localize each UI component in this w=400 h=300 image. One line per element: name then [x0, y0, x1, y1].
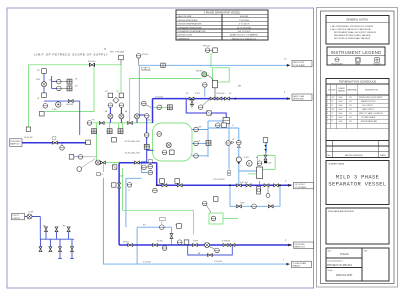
- svg-text:PIT: PIT: [37, 70, 40, 72]
- inlet line fittings: [24, 137, 90, 150]
- svg-text:3000mm ID x 9144mm L/T: 3000mm ID x 9144mm L/T: [232, 38, 257, 40]
- svg-text:ASME VIII DIV 1 U STAMPED: ASME VIII DIV 1 U STAMPED: [230, 34, 258, 37]
- svg-text:TO HP FLARE: TO HP FLARE: [293, 64, 306, 67]
- svg-text:8"-PG-102: 8"-PG-102: [217, 93, 225, 95]
- svg-text:24"-PL-100: 24"-PL-100: [24, 137, 33, 139]
- wire water vessel stub: [119, 162, 157, 164]
- manifold valves top: [45, 227, 71, 232]
- gas line labels: [186, 93, 232, 95]
- value labels gas line: [141, 67, 150, 72]
- wire lg loop: [142, 162, 148, 173]
- wire inlet feeders: [110, 107, 137, 123]
- wire drain branch: [137, 227, 171, 264]
- svg-text:Rev: Rev: [364, 251, 368, 253]
- valve on water bypass: [208, 254, 213, 257]
- node closed drain flag: [287, 261, 312, 268]
- svg-text:P-101: P-101: [244, 157, 249, 159]
- svg-text:OIL OUTLET: OIL OUTLET: [362, 105, 374, 107]
- revision strip: [326, 141, 389, 158]
- svg-text:4000 M3: 4000 M3: [240, 16, 249, 18]
- svg-text:MANIFOLD: MANIFOLD: [10, 143, 20, 146]
- svg-text:PIT: PIT: [143, 225, 146, 227]
- lg loop instruments: [142, 160, 153, 175]
- wire green right instrument box: [258, 156, 275, 170]
- svg-text:8"-PW-104: 8"-PW-104: [222, 241, 230, 243]
- silencer box: [223, 118, 229, 124]
- instrument circle under gas main: [198, 100, 209, 110]
- wire bridle to pump: [208, 128, 239, 185]
- svg-text:MATERIAL: MATERIAL: [348, 89, 357, 92]
- wire green inlet drops: [110, 123, 123, 129]
- svg-text:INSTRUMENT LEGEND: INSTRUMENT LEGEND: [331, 50, 382, 55]
- inlet header valves: [99, 121, 139, 164]
- wire instrument stubs: [52, 76, 57, 88]
- wire bridle standpipe: [208, 121, 229, 170]
- vessel V-100: [153, 123, 193, 161]
- svg-text:PROJECT-IN-PID-001: PROJECT-IN-PID-001: [327, 264, 352, 267]
- svg-text:10"-PG-101: 10"-PG-101: [142, 70, 151, 72]
- wire green LC box: [209, 213, 223, 224]
- svg-text:1. ALL PERSONNEL PROVIDED BY: 1. ALL PERSONNEL PROVIDED BY OTHERS: [330, 25, 374, 28]
- relief valve in green box: [264, 155, 267, 163]
- svg-text:VENT TO SAFE LOCATION: VENT TO SAFE LOCATION: [359, 112, 383, 115]
- svg-text:DESCRIPTION: DESCRIPTION: [365, 90, 379, 92]
- level gauge circle left of gas main: [142, 101, 152, 107]
- svg-text:2"-UW: 2"-UW: [28, 212, 33, 214]
- transmitter on pump line: [237, 140, 242, 148]
- svg-text:3: 3: [327, 105, 328, 107]
- wire green level signal: [123, 168, 194, 235]
- svg-text:PLC/DCS: PLC/DCS: [373, 64, 381, 66]
- svg-text:HEADER: HEADER: [293, 265, 301, 268]
- valves on gas main: [189, 97, 236, 100]
- drain loop instruments: [159, 218, 181, 239]
- svg-text:XV-103: XV-103: [123, 242, 129, 244]
- instrument vent circle on gas stub: [136, 54, 148, 66]
- node oil outlet flag: [288, 182, 313, 189]
- pump circle: [56, 102, 61, 107]
- svg-text:TIT: TIT: [116, 91, 119, 93]
- svg-text:WATER OUTLET: WATER OUTLET: [361, 100, 376, 103]
- vessel internals square: [166, 143, 171, 148]
- wire green vent stub: [102, 162, 104, 172]
- svg-text:24"-PL-1002-150#: 24"-PL-1002-150#: [125, 152, 141, 154]
- scattered instrument tag labels: [28, 49, 287, 264]
- node gas main flag: [287, 94, 312, 101]
- svg-text:GAS OUTLET: GAS OUTLET: [362, 108, 375, 111]
- svg-text:7*/24 PSIG: 7*/24 PSIG: [239, 20, 250, 22]
- motor circle: [247, 161, 253, 167]
- wire pcv gauge stub: [204, 89, 206, 97]
- wire green drop to inlet cluster: [120, 65, 122, 99]
- svg-text:COMPANY NAME: COMPANY NAME: [328, 163, 345, 166]
- left column instruments: [37, 69, 48, 116]
- termination schedule table: [326, 79, 389, 141]
- svg-text:8"-PG: 8"-PG: [195, 93, 200, 95]
- wire level bridle: [192, 121, 208, 157]
- svg-text:LIT: LIT: [37, 98, 39, 100]
- svg-text:SIZE: SIZE: [331, 90, 336, 92]
- wire instrument column: [43, 73, 45, 98]
- svg-text:INCLUDED IN WHICH BALL VALVE(S: INCLUDED IN WHICH BALL VALVE(S): [334, 37, 371, 40]
- svg-text:CLOSED DRAIN: CLOSED DRAIN: [361, 116, 376, 119]
- svg-text:DESIGN CODE: DESIGN CODE: [178, 35, 193, 37]
- vessel tap circles: [194, 127, 199, 158]
- xv valves on oil line left: [153, 179, 183, 193]
- node drain flag: [12, 213, 33, 220]
- svg-text:OPERATING PRESSURE: OPERATING PRESSURE: [178, 26, 203, 29]
- small header instruments: [87, 121, 96, 134]
- svg-text:101: 101: [49, 80, 52, 82]
- title panel inner frame: [321, 11, 395, 284]
- svg-text:INSTRUMENT SHALL BE SUPPLY VEN: INSTRUMENT SHALL BE SUPPLY VENDOR: [334, 31, 377, 34]
- svg-text:1: 1: [327, 97, 328, 99]
- title panel outer frame: [317, 8, 398, 288]
- wire manifold drops: [41, 239, 74, 258]
- LCV on oil line: [257, 187, 271, 198]
- svg-text:GAS VOLUME: GAS VOLUME: [178, 15, 192, 18]
- pump suction circle: [236, 157, 241, 164]
- valves on oil line: [229, 184, 281, 187]
- svg-text:LIT: LIT: [198, 141, 200, 143]
- svg-text:OPERATING TEMPERATURE: OPERATING TEMPERATURE: [178, 30, 207, 33]
- pcv body: [213, 80, 242, 98]
- water line instruments: [162, 240, 219, 253]
- wire psv drop right: [266, 143, 268, 154]
- wire pump recirc: [44, 101, 80, 135]
- general notes box: [326, 16, 389, 45]
- pipe labels: [125, 141, 141, 154]
- wire water outlet: [119, 163, 291, 245]
- top data table: [176, 10, 268, 40]
- svg-text:GAS TO GAS: GAS TO GAS: [293, 95, 305, 98]
- valve on recirc: [67, 100, 74, 107]
- svg-text:P-100: P-100: [52, 109, 57, 111]
- legend symbol plc: [375, 58, 380, 63]
- wire green main header: [28, 65, 121, 127]
- manifold valves bottom: [39, 247, 74, 252]
- svg-text:RATING: RATING: [338, 90, 346, 93]
- psv top circle: [203, 46, 217, 53]
- svg-text:SEPARATOR VESSEL: SEPARATOR VESSEL: [328, 182, 386, 188]
- svg-text:24"-PL-1001-150#: 24"-PL-1001-150#: [125, 141, 141, 143]
- inlet feeder meters: [108, 114, 149, 119]
- svg-text:PIT: PIT: [105, 91, 108, 93]
- pcv gauge circle: [203, 83, 208, 90]
- svg-text:2. ALL CONTROL VALVES FCV AND: 2. ALL CONTROL VALVES FCV AND BLIND: [330, 28, 372, 31]
- wire closed drain header: [103, 178, 289, 264]
- svg-text:2"-VG-105: 2"-VG-105: [155, 97, 163, 99]
- svg-text:METER SKID: METER SKID: [293, 99, 305, 101]
- svg-text:45 TO 90 PSIG: 45 TO 90 PSIG: [237, 27, 252, 29]
- svg-text:DATE: DATE: [380, 154, 386, 157]
- svg-text:PIT-101: PIT-101: [142, 54, 148, 56]
- svg-text:F-101: F-101: [267, 163, 271, 165]
- wire oil bypass loop: [230, 185, 280, 206]
- psv green circle: [202, 72, 213, 81]
- svg-text:6"-PL-103-150#: 6"-PL-103-150#: [213, 179, 225, 181]
- svg-text:CLOSED DRAIN: CLOSED DRAIN: [293, 262, 307, 265]
- svg-text:REVISION/ISSUE: REVISION/ISSUE: [345, 155, 363, 157]
- legend symbol field inst: [335, 58, 339, 62]
- instrument square right: [263, 138, 268, 155]
- instrument square PSV riser left: [116, 51, 125, 65]
- wire green vent riser: [210, 53, 212, 68]
- svg-text:V-100: V-100: [146, 120, 150, 122]
- wire green lower header: [97, 123, 120, 163]
- wire green PCV control box: [213, 68, 230, 82]
- bottom title block: [326, 248, 389, 281]
- svg-text:10": 10": [284, 59, 287, 61]
- svg-text:LIMIT OF PETRECO SCOPE OF SUPP: LIMIT OF PETRECO SCOPE OF SUPPLY: [34, 53, 108, 57]
- svg-text:MILD 3 PHASE: MILD 3 PHASE: [336, 175, 380, 181]
- wire pump suction: [239, 171, 260, 185]
- svg-text:UTILITY: UTILITY: [12, 215, 19, 217]
- instrument legend box: [327, 47, 385, 65]
- wire green branch down-left: [45, 65, 94, 112]
- valves on oil bypass: [237, 204, 274, 209]
- square above green box: [213, 197, 218, 202]
- wire water bypass: [188, 245, 233, 255]
- svg-text:XV-104: XV-104: [157, 241, 163, 243]
- filter column: [248, 161, 262, 179]
- svg-text:2"-CD-102: 2"-CD-102: [214, 261, 222, 263]
- wire manifold risers: [46, 232, 69, 240]
- svg-text:6: 6: [327, 117, 328, 119]
- vessel internals pair: [162, 150, 174, 155]
- left pair instruments: [57, 79, 73, 91]
- green box circle: [202, 201, 215, 221]
- drain valve under gas line: [191, 100, 194, 108]
- svg-text:2"-BD: 2"-BD: [240, 203, 245, 205]
- node gas outlet flag: [287, 60, 312, 67]
- svg-text:M: M: [248, 162, 250, 166]
- svg-text:6"-PL-103: 6"-PL-103: [240, 182, 248, 184]
- feeder instruments: [108, 93, 124, 107]
- firm name box: [326, 208, 389, 244]
- svg-text:OIL OUTLET: OIL OUTLET: [295, 184, 306, 186]
- node water outlet flag: [288, 242, 313, 249]
- wire green gauge stub: [152, 106, 169, 108]
- svg-text:DESIGN TEMPERATURE: DESIGN TEMPERATURE: [178, 23, 203, 26]
- wire gas main: [153, 98, 291, 100]
- svg-text:FIRM NAME AND ADDRESS: FIRM NAME AND ADDRESS: [328, 210, 355, 213]
- svg-text:TERMINATION SCHEDULE: TERMINATION SCHEDULE: [339, 80, 377, 84]
- svg-text:INSTRUMENT AIR: INSTRUMENT AIR: [361, 120, 378, 123]
- wire green inlet header: [93, 122, 153, 124]
- svg-text:GAS OUTLET: GAS OUTLET: [293, 61, 305, 64]
- valve square on pcv drain: [207, 111, 211, 115]
- svg-text:DESIGN PRESSURE: DESIGN PRESSURE: [178, 20, 199, 22]
- svg-text:Scale: Scale: [328, 270, 334, 272]
- wire oil outlet: [157, 184, 292, 186]
- wire gas stub down: [138, 65, 140, 115]
- wire vessel feed: [139, 115, 153, 163]
- svg-text:GENERAL NOTES: GENERAL NOTES: [346, 18, 368, 22]
- svg-text:LIT: LIT: [232, 139, 234, 141]
- svg-text:PSV-102: PSV-102: [196, 71, 203, 73]
- water line labels: [193, 241, 230, 243]
- svg-text:PSV-100A: PSV-100A: [116, 51, 125, 54]
- inlet left cluster: [69, 155, 96, 172]
- wire green lc link: [223, 218, 238, 220]
- svg-text:3 PHASE SEPARATOR VESSEL: 3 PHASE SEPARATOR VESSEL: [204, 11, 241, 14]
- wire green to PSV circle: [129, 79, 201, 122]
- svg-text:7: 7: [327, 121, 328, 123]
- svg-text:2: 2: [327, 101, 328, 103]
- svg-text:No.: No.: [328, 155, 332, 157]
- LCV vertical on water drop: [112, 183, 132, 188]
- svg-text:PACKAGES IN WHICH BALL VALVE(S: PACKAGES IN WHICH BALL VALVE(S): [334, 34, 371, 37]
- svg-text:10": 10": [332, 109, 335, 111]
- svg-text:KOGAS: KOGAS: [340, 253, 349, 256]
- svg-text:← SET: ← SET: [236, 85, 241, 87]
- page border drawing area: [7, 8, 314, 288]
- svg-text:(BV-104): (BV-104): [67, 104, 74, 106]
- svg-text:WATER OUT: WATER OUT: [295, 246, 306, 249]
- drawing title box: [326, 161, 389, 205]
- inlet header instruments: [107, 129, 149, 150]
- svg-text:Drawing Number: Drawing Number: [328, 261, 343, 263]
- svg-text:FIELD MOUNT: FIELD MOUNT: [331, 64, 342, 66]
- legend symbol panel inst: [356, 58, 361, 63]
- wire inlet line: [22, 142, 87, 144]
- svg-text:24": 24": [332, 97, 335, 99]
- svg-text:PRODUCED LIQUID INLET: PRODUCED LIQUID INLET: [359, 97, 383, 99]
- water line valves: [128, 244, 235, 247]
- node green header end: [26, 127, 30, 131]
- instrument xsquare on gas line: [161, 63, 165, 67]
- wire drain manifold: [25, 217, 75, 240]
- svg-text:5: 5: [327, 113, 328, 115]
- svg-text:4 TO 200 F: 4 TO 200 F: [239, 24, 250, 26]
- svg-text:100 TO 150 F: 100 TO 150 F: [238, 31, 251, 33]
- wire pcv drain: [186, 99, 226, 118]
- vent stub square: [96, 160, 117, 176]
- svg-text:PRODUCED: PRODUCED: [295, 244, 306, 246]
- valve on green gauge stub: [157, 105, 172, 110]
- wire oil from vessel: [156, 163, 158, 186]
- svg-text:PSV-101: PSV-101: [203, 46, 210, 48]
- svg-text:PANEL: PANEL: [355, 63, 360, 66]
- wire lcv bypass: [126, 178, 142, 227]
- node inlet flag: [10, 139, 23, 147]
- wire gas main left drop: [152, 99, 154, 123]
- vessel internals circle LG: [157, 132, 162, 137]
- svg-text:2"-CD-101: 2"-CD-101: [143, 262, 151, 264]
- svg-text:STATION: STATION: [12, 217, 20, 220]
- svg-text:SDV-100: SDV-100: [88, 61, 95, 63]
- instrument pair on bridle top: [216, 123, 227, 128]
- svg-text:4: 4: [327, 109, 328, 111]
- svg-text:DIMENSION: DIMENSION: [178, 38, 190, 40]
- bridle instruments: [206, 141, 234, 176]
- svg-text:DWG NO AP3T: DWG NO AP3T: [336, 274, 353, 277]
- wire gas outlet line: [139, 64, 290, 66]
- svg-text:TO STORAGE: TO STORAGE: [295, 186, 308, 189]
- svg-text:FROM WELL: FROM WELL: [10, 141, 21, 143]
- svg-text:8"-PW: 8"-PW: [193, 241, 198, 243]
- valve on green header: [88, 61, 95, 67]
